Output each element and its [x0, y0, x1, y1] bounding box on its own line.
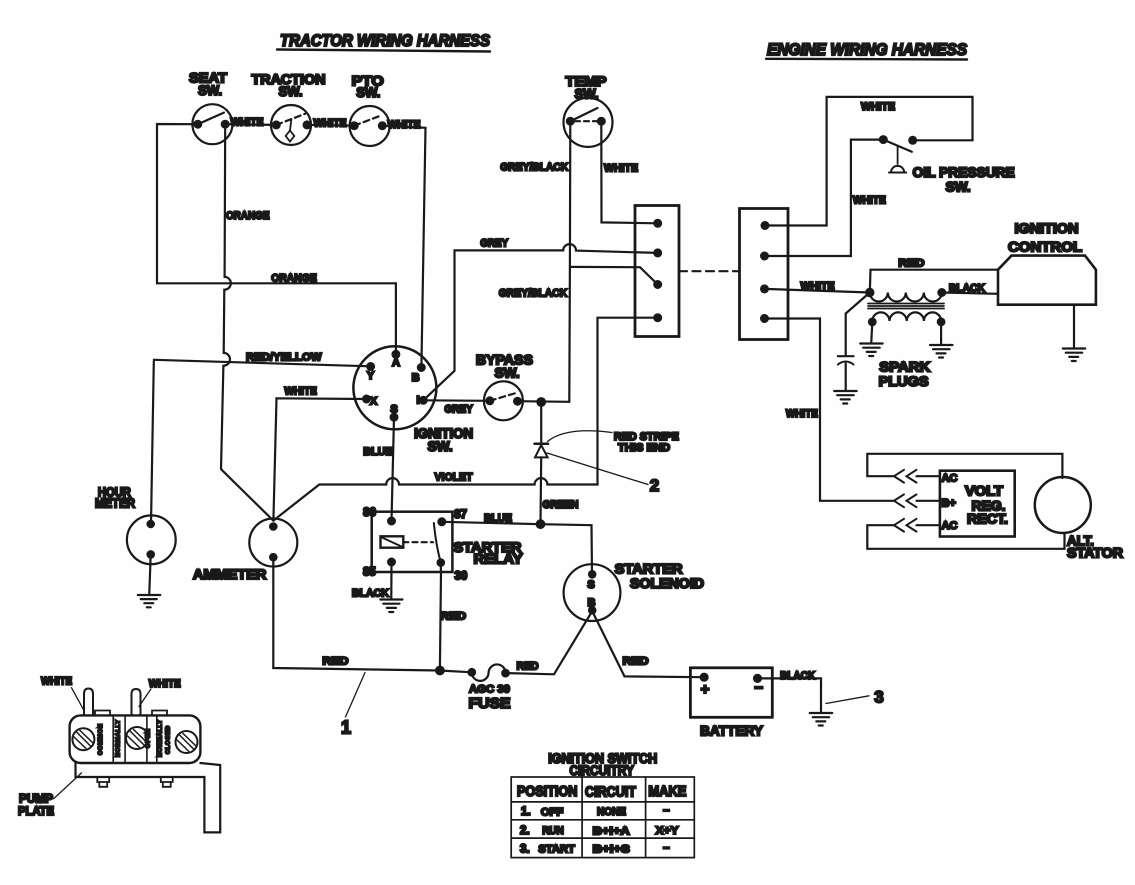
connector chevrons AC top [894, 470, 917, 483]
wire BLUE relay 87 to solenoid S [442, 513, 592, 575]
svg-text:3.: 3. [520, 843, 530, 855]
svg-text:RUN: RUN [542, 825, 564, 837]
capacitor condenser [838, 293, 870, 390]
wire WHITE pto to ignition B [382, 119, 425, 368]
svg-text:GREY/BLACK: GREY/BLACK [500, 162, 568, 174]
svg-text:85: 85 [363, 567, 376, 579]
label SPARK PLUGS [879, 360, 931, 390]
pump plate terminal text NORMALLY CLOSED [158, 720, 172, 757]
table title IGNITION SWITCH CIRCUITRY [548, 751, 657, 778]
svg-text:BLUE: BLUE [484, 513, 512, 525]
svg-text:WHITE: WHITE [604, 163, 638, 175]
wire WHITE engine pin4 to volt reg B+ [765, 319, 940, 501]
svg-text:GREY: GREY [480, 238, 509, 250]
pump plate wire stub right [132, 689, 141, 715]
node 1 callout [341, 673, 365, 738]
label PUMP PLATE with callout [18, 773, 82, 818]
svg-text:B: B [412, 372, 420, 384]
svg-text:3: 3 [874, 688, 883, 707]
battery BATTERY [690, 668, 772, 739]
svg-text:PLUGS: PLUGS [879, 374, 929, 389]
svg-text:B: B [588, 597, 596, 609]
junction green-blue node [537, 520, 545, 528]
svg-text:I: I [416, 395, 419, 407]
junction coil primary left node [866, 289, 873, 296]
svg-text:STATOR: STATOR [1067, 546, 1123, 561]
svg-text:CIRCUITRY: CIRCUITRY [569, 763, 634, 778]
svg-text:B+I+A: B+I+A [593, 825, 630, 837]
wire BLACK battery to ground [758, 670, 822, 712]
svg-text:WHITE: WHITE [388, 119, 421, 131]
svg-text:2.: 2. [520, 825, 530, 837]
svg-text:GREEN: GREEN [543, 499, 579, 511]
svg-text:AC: AC [942, 473, 958, 485]
svg-text:RED: RED [517, 661, 539, 673]
svg-text:CLOSED: CLOSED [166, 726, 172, 754]
svg-text:RECT.: RECT. [967, 512, 1008, 527]
wire RED fuse to solenoid B [506, 612, 593, 675]
svg-text:PLATE: PLATE [18, 804, 54, 818]
title TRACTOR WIRING HARNESS [277, 32, 490, 52]
wire WHITE engine pin3 to ignition coil [765, 280, 870, 292]
svg-text:ENGINE WIRING HARNESS: ENGINE WIRING HARNESS [767, 41, 967, 59]
svg-text:BLACK: BLACK [780, 670, 815, 682]
svg-text:CIRCUIT: CIRCUIT [585, 785, 636, 801]
svg-text:OIL PRESSURE: OIL PRESSURE [913, 165, 1015, 180]
svg-text:OFF: OFF [541, 806, 564, 818]
svg-text:SPARK: SPARK [879, 360, 930, 375]
wire WHITE seat to traction [225, 117, 276, 129]
ground hour meter [138, 554, 160, 607]
wire RED coil to ignition control [870, 258, 998, 293]
starter solenoid STARTER SOLENOID [564, 562, 705, 621]
wire hour meter feed [151, 360, 154, 524]
svg-text:–: – [663, 842, 670, 854]
pump plate bracket [76, 763, 221, 832]
svg-text:1: 1 [341, 718, 351, 738]
title ENGINE WIRING HARNESS [766, 41, 967, 60]
svg-text:SW.: SW. [495, 366, 520, 381]
svg-text:S: S [390, 404, 397, 416]
svg-text:WHITE: WHITE [284, 386, 317, 398]
svg-text:RED: RED [623, 656, 649, 668]
svg-text:RELAY: RELAY [474, 552, 523, 567]
pump plate screw terminal 3 [176, 731, 198, 753]
pump plate bolt left [97, 777, 109, 787]
table header POSITION CIRCUIT MAKE [517, 784, 687, 801]
svg-text:START: START [538, 843, 575, 855]
svg-text:WHITE: WHITE [853, 195, 886, 207]
svg-text:87: 87 [454, 509, 467, 521]
junction relay30-red node [436, 667, 444, 675]
starter relay STARTER RELAY [363, 507, 523, 583]
svg-text:WHITE: WHITE [231, 117, 264, 129]
svg-text:WHITE: WHITE [314, 118, 347, 130]
svg-text:NORMALLY: NORMALLY [158, 720, 164, 757]
svg-text:IGNITION: IGNITION [1015, 221, 1079, 236]
svg-text:+: + [701, 681, 710, 698]
svg-text:STARTER: STARTER [615, 562, 683, 577]
wire AC bottom volt reg to stator [867, 525, 1064, 549]
table row 1 OFF NONE [521, 805, 670, 819]
svg-text:Y: Y [367, 370, 375, 382]
ignition control module IGNITION CONTROL [998, 221, 1096, 305]
wire ORANGE seat-right down to ammeter [221, 124, 273, 520]
table ignition switch circuitry [511, 777, 694, 858]
svg-text:WHITE: WHITE [41, 676, 72, 688]
ignition coil secondary winding [869, 312, 944, 325]
temp switch TEMP SW. [564, 74, 613, 147]
svg-text:VIOLET: VIOLET [435, 472, 473, 484]
svg-text:BLACK: BLACK [949, 283, 985, 295]
svg-text:X: X [370, 396, 378, 408]
table row 2 RUN B+I+A X+Y [520, 825, 679, 837]
svg-text:BLUE: BLUE [363, 446, 393, 458]
svg-text:30: 30 [455, 571, 468, 583]
wire WHITE temp-right to connector pin1 [601, 121, 657, 223]
wire VIOLET ammeter to connector pin4 [273, 318, 657, 521]
svg-text:NORMALLY: NORMALLY [116, 720, 122, 757]
node 2 callout [547, 453, 659, 495]
ground battery [810, 713, 832, 726]
pump plate screw terminal 2 [126, 727, 148, 749]
connector chevrons B+ [894, 494, 917, 507]
svg-text:2: 2 [650, 476, 659, 495]
svg-text:TRACTOR WIRING HARNESS: TRACTOR WIRING HARNESS [280, 32, 490, 50]
wire GREY/BLACK branch to connector pin3 [499, 267, 658, 300]
wire WHITE traction to pto [307, 118, 354, 130]
svg-text:RED: RED [322, 656, 348, 668]
svg-text:THIS END: THIS END [618, 442, 670, 454]
wire GREEN diode to solenoid blue junction [541, 457, 579, 524]
svg-text:SOLENOID: SOLENOID [630, 576, 704, 591]
wire GREY/BLACK temp-left down to bypass net [500, 121, 570, 402]
traction switch TRACTION SW. [252, 72, 326, 145]
oil pressure switch OIL PRESSURE SW. [880, 136, 1015, 194]
ground coil secondary right [930, 322, 953, 358]
svg-text:AGC 30: AGC 30 [469, 684, 510, 696]
svg-text:WHITE: WHITE [149, 678, 181, 690]
svg-text:A: A [392, 357, 400, 369]
diode with red stripe [535, 402, 549, 457]
svg-text:POSITION: POSITION [517, 784, 578, 800]
wire GREY ignition I to connector pin2 [423, 238, 657, 401]
svg-text:RED: RED [440, 611, 466, 623]
ground capacitor [834, 391, 857, 404]
svg-text:X+Y: X+Y [656, 825, 680, 837]
ignition coil core [868, 304, 944, 309]
fuse AGC 30 FUSE [469, 664, 511, 712]
wire BLACK relay 85 to ground [352, 562, 392, 600]
svg-text:AMMETER: AMMETER [193, 567, 267, 582]
wire AC top volt reg to stator [867, 454, 1062, 478]
svg-text:–: – [663, 805, 670, 817]
svg-text:MAKE: MAKE [648, 784, 686, 800]
svg-text:SW.: SW. [356, 85, 380, 100]
ground ignition control [1063, 305, 1085, 361]
pump plate screw terminal 1 [72, 728, 94, 750]
svg-text:GREY/BLACK: GREY/BLACK [499, 288, 568, 300]
svg-text:AC: AC [942, 520, 958, 532]
svg-text:NONE: NONE [597, 806, 626, 818]
ground coil secondary left [860, 322, 883, 356]
svg-text:FUSE: FUSE [469, 695, 511, 712]
wire RED/YELLOW to ignition Y [154, 351, 371, 366]
wire ORANGE seat-left to ignition A [157, 124, 396, 354]
svg-text:RED: RED [898, 258, 924, 270]
svg-text:SW.: SW. [575, 87, 599, 102]
pump plate wire stub left [84, 689, 93, 716]
wire GREY bypass to grey/black junction [518, 400, 570, 403]
svg-text:COMMON: COMMON [98, 724, 104, 755]
wire WHITE oil pressure to engine pin2 [765, 140, 886, 256]
svg-text:WHITE: WHITE [786, 408, 818, 420]
table row 3 START B+I+S [520, 842, 670, 856]
alternator stator ALT. STATOR [1035, 477, 1123, 561]
svg-text:WHITE: WHITE [861, 101, 895, 113]
svg-text:ORANGE: ORANGE [271, 273, 317, 285]
hour meter HOUR METER [95, 486, 176, 565]
ignition switch IGNITION SW. [353, 346, 473, 454]
wire RED ammeter to fuse [273, 557, 472, 672]
label WHITE pump right with callout [139, 678, 181, 707]
ground relay 85 [380, 600, 402, 613]
wire WHITE engine pin1 to oil pressure [765, 97, 973, 226]
svg-text:86: 86 [363, 507, 376, 519]
wire BLUE ignition S to relay 86 [363, 417, 394, 521]
svg-text:ORANGE: ORANGE [226, 210, 270, 222]
label WHITE pump left with callout [41, 676, 83, 710]
wire GREY ignition I to bypass switch [423, 400, 490, 415]
pump plate terminal text NORMALLY OPEN [116, 720, 152, 757]
svg-text:S: S [587, 579, 594, 591]
voltage regulator rectifier VOLT REG. RECT. [940, 471, 1015, 537]
svg-text:BLACK: BLACK [352, 588, 389, 600]
svg-text:GREY: GREY [444, 404, 473, 416]
wire dashed connector mating line [679, 270, 740, 272]
ignition coil primary winding [870, 289, 945, 301]
pto switch PTO SW. [350, 74, 390, 147]
connector block engine side [740, 209, 789, 340]
ammeter AMMETER [193, 519, 297, 583]
pump plate micro switch body [70, 711, 201, 764]
svg-text:OPEN: OPEN [146, 729, 152, 748]
connector chevrons AC bottom [894, 519, 917, 532]
svg-text:CONTROL: CONTROL [1008, 240, 1082, 255]
svg-text:1.: 1. [521, 806, 531, 818]
svg-text:VOLT: VOLT [965, 484, 1004, 499]
node 3 callout [826, 688, 884, 707]
wire BLACK coil to ignition control [942, 283, 998, 295]
svg-text:RED/YELLOW: RED/YELLOW [246, 351, 322, 363]
svg-text:SW.: SW. [946, 180, 971, 195]
junction diode top node [537, 398, 545, 406]
connector block tractor side [635, 206, 679, 337]
label RED STRIPE THIS END with callout [548, 431, 679, 454]
svg-text:METER: METER [95, 497, 135, 511]
svg-text:B+: B+ [942, 498, 956, 510]
svg-text:−: − [754, 680, 763, 697]
bypass switch BYPASS SW. [476, 353, 533, 421]
wire RED relay 30 to fuse line [440, 572, 466, 670]
seat switch SEAT SW. [189, 71, 232, 145]
wire RED solenoid B to battery [592, 612, 704, 678]
svg-text:WHITE: WHITE [801, 280, 835, 292]
svg-text:BATTERY: BATTERY [700, 723, 764, 739]
svg-text:SW.: SW. [198, 83, 222, 98]
svg-text:SW.: SW. [428, 439, 453, 454]
wire WHITE ignition X to ammeter [273, 386, 366, 521]
svg-text:SW.: SW. [279, 84, 303, 99]
pump plate bolt right [161, 777, 173, 787]
svg-text:B+I+S: B+I+S [593, 844, 630, 856]
